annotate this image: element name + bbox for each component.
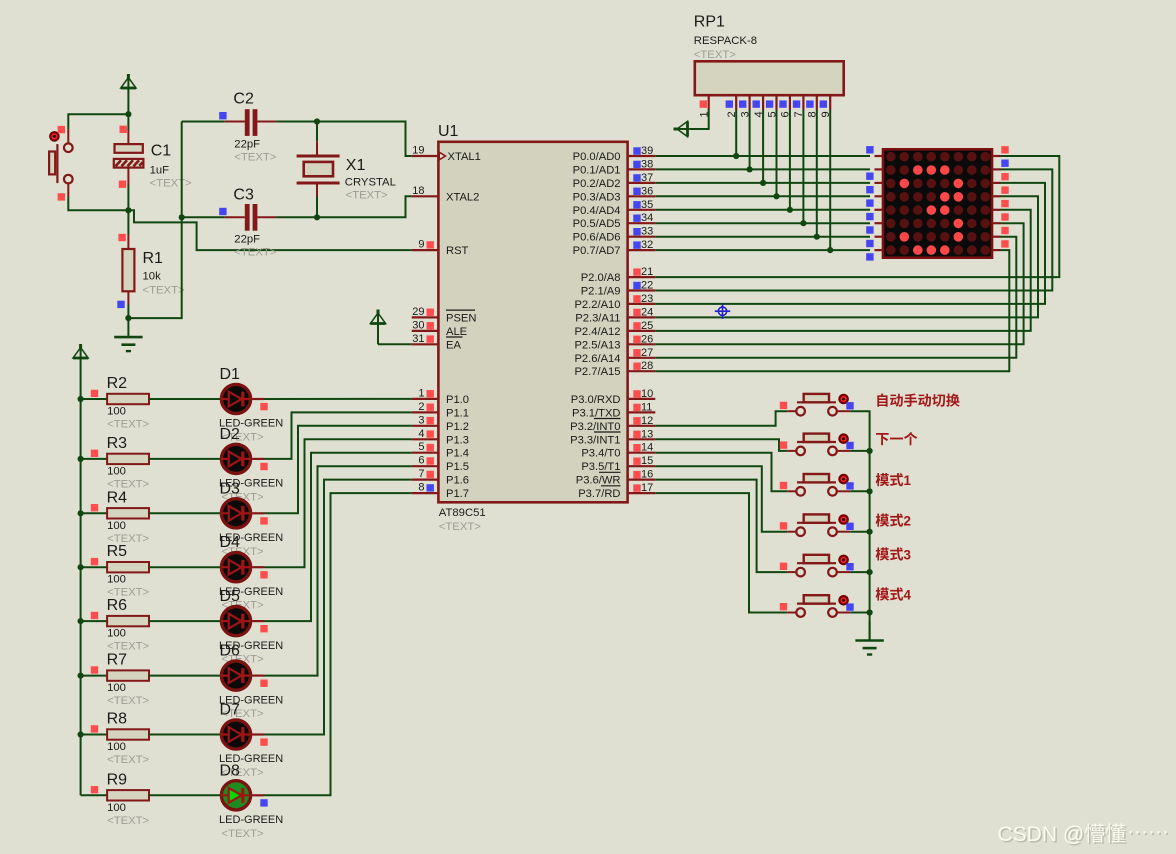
svg-text:P3.1/TXD: P3.1/TXD	[572, 407, 621, 419]
svg-text:AT89C51: AT89C51	[439, 507, 486, 519]
junction XTAL2 node	[314, 214, 320, 220]
svg-text:14: 14	[641, 442, 653, 454]
svg-text:31: 31	[412, 333, 424, 345]
junction LED rail R7	[78, 673, 84, 679]
wire R2 to D1	[149, 398, 221, 400]
wire C3 to XTAL2 node	[276, 216, 317, 218]
wire D2 to P1.1	[264, 412, 412, 459]
svg-text:35: 35	[641, 199, 653, 211]
U1 pin 14 (P3.4/T0)	[581, 442, 655, 460]
matrix left pin 7	[866, 237, 883, 248]
LED D1 (LED-GREEN)	[219, 366, 283, 444]
svg-text:100: 100	[107, 682, 126, 694]
svg-text:2: 2	[904, 514, 911, 529]
svg-text:XTAL2: XTAL2	[446, 191, 479, 203]
wire RP1 pin 9 to P0.7 net	[829, 110, 831, 251]
svg-text:P1.0: P1.0	[446, 394, 469, 406]
svg-text:9: 9	[418, 239, 424, 251]
wire matrix row 8 to P2.7	[655, 250, 1009, 371]
svg-text:P1.2: P1.2	[446, 421, 469, 433]
svg-text:<TEXT>: <TEXT>	[107, 815, 149, 827]
svg-text:26: 26	[641, 333, 653, 345]
svg-text:4: 4	[418, 428, 424, 440]
junction rail button 3	[867, 488, 873, 494]
U1 pin 28 (P2.7/A15)	[574, 360, 655, 378]
matrix right pin 2	[992, 160, 1009, 170]
svg-text:D5: D5	[220, 588, 241, 605]
svg-text:22pF: 22pF	[234, 233, 260, 245]
U1 pin 30 (ALE)	[412, 319, 467, 338]
wire D5 to P1.4	[264, 453, 412, 621]
wire P0.2 to matrix column 3	[655, 182, 870, 184]
svg-text:7: 7	[418, 468, 424, 480]
junction rail button 5	[867, 569, 873, 575]
resistor R1 10k (vertical)	[117, 210, 185, 308]
wire button 5 to rail	[850, 571, 869, 573]
wire D1 to P1.0	[264, 398, 412, 400]
svg-text:36: 36	[641, 185, 653, 197]
label 模式4	[876, 587, 912, 602]
svg-text:RP1: RP1	[694, 14, 725, 31]
wire XTAL1 node to XTAL1 pin	[317, 122, 412, 157]
wire RP1 pin 2 to P0.0 net	[735, 110, 737, 157]
svg-text:D6: D6	[220, 643, 241, 660]
svg-text:R7: R7	[107, 652, 128, 669]
svg-text:22pF: 22pF	[234, 138, 260, 150]
svg-text:XTAL1: XTAL1	[448, 151, 481, 163]
svg-text:P0.1/AD1: P0.1/AD1	[573, 164, 621, 176]
wire button 6 to rail	[850, 612, 869, 614]
power terminal EA pull-up	[370, 310, 385, 345]
wire rail to R9	[81, 794, 108, 796]
junction RP1 pin 9	[827, 247, 833, 253]
push button button 下一个	[780, 433, 854, 455]
wire D5 anode side	[251, 620, 264, 622]
label 模式2	[876, 514, 911, 529]
ground GND1	[114, 318, 142, 351]
svg-text:R4: R4	[107, 489, 128, 506]
svg-text:25: 25	[641, 320, 653, 332]
junction LED rail R6	[78, 618, 84, 624]
label 下一个	[876, 432, 917, 445]
wire button 2 to rail	[850, 450, 869, 452]
U1 pin 25 (P2.4/A12)	[574, 320, 655, 338]
U1 pin 22 (P2.1/A9)	[581, 280, 656, 298]
wire rail to R6	[81, 620, 108, 622]
svg-text:R1: R1	[143, 250, 164, 267]
svg-text:PSEN: PSEN	[446, 312, 476, 324]
power terminal RP1 common	[674, 121, 690, 136]
LED D2 (LED-GREEN)	[219, 426, 283, 504]
wire D1 anode side	[251, 398, 264, 400]
svg-text:100: 100	[107, 574, 126, 586]
wire R9 to D8	[149, 794, 221, 796]
svg-text:13: 13	[641, 428, 653, 440]
wire reset node to RST pin	[128, 210, 411, 250]
svg-text:<TEXT>: <TEXT>	[143, 284, 185, 296]
resistor R2	[107, 375, 150, 431]
svg-text:19: 19	[412, 145, 424, 157]
wire matrix row 2 to P2.1	[655, 169, 1052, 290]
wire button 3 to rail	[850, 490, 869, 492]
svg-text:100: 100	[107, 741, 126, 753]
matrix left pin 8	[866, 250, 883, 261]
svg-text:2: 2	[418, 401, 424, 413]
svg-text:<TEXT>: <TEXT>	[234, 247, 276, 259]
U1 pin 2 (P1.1)	[412, 401, 469, 420]
wire C1 bottom to node	[127, 185, 129, 211]
svg-text:P2.3/A11: P2.3/A11	[575, 312, 620, 324]
resistor R4	[107, 489, 150, 545]
svg-text:P2.2/A10: P2.2/A10	[574, 299, 620, 311]
8x8 LED dot matrix MX1	[883, 149, 992, 257]
U1 pin 35 (P0.4/AD4)	[573, 199, 656, 217]
capacitor C2 22pF	[182, 90, 277, 163]
power terminal LED rail	[73, 344, 88, 795]
wire D4 to P1.3	[264, 439, 412, 567]
wire P3.5 to button 4	[655, 466, 787, 532]
svg-text:1: 1	[418, 387, 424, 399]
wire R6 to D5	[149, 620, 221, 622]
svg-text:D8: D8	[220, 762, 241, 779]
U1 pin 7 (P1.6)	[412, 468, 469, 487]
svg-text:15: 15	[641, 455, 653, 467]
wire rail to R7	[81, 675, 108, 677]
junction RP1 pin 3	[747, 166, 753, 172]
svg-text:16: 16	[641, 469, 653, 481]
wire button 4 to rail	[850, 531, 869, 533]
wire power rail down to C1	[127, 114, 129, 130]
junction LED rail R3	[78, 456, 84, 462]
matrix right pin 5	[992, 200, 1009, 210]
resistor pack RP1 RESPACK-8	[694, 14, 844, 96]
svg-text:100: 100	[107, 802, 126, 814]
U1 pin 38 (P0.1/AD1)	[573, 158, 656, 176]
capacitor C3 22pF	[182, 186, 277, 258]
junction rail button 6	[867, 609, 873, 615]
U1 pin 27 (P2.6/A14)	[574, 347, 655, 365]
svg-text:R8: R8	[107, 711, 128, 728]
matrix right pin 7	[992, 227, 1009, 237]
svg-text:100: 100	[107, 628, 126, 640]
svg-text:P3.0/RXD: P3.0/RXD	[571, 394, 621, 406]
junction rail button 4	[867, 529, 873, 535]
svg-text:17: 17	[641, 482, 653, 494]
svg-text:<TEXT>: <TEXT>	[107, 419, 149, 431]
svg-text:P3.2/INT0: P3.2/INT0	[570, 421, 620, 433]
svg-text:P0.5/AD5: P0.5/AD5	[573, 218, 621, 230]
wire matrix row 3 to P2.2	[655, 183, 1045, 304]
wire D4 anode side	[251, 566, 264, 568]
svg-text:R3: R3	[107, 435, 128, 452]
svg-text:29: 29	[412, 306, 424, 318]
svg-text:R5: R5	[107, 543, 128, 560]
svg-text:R2: R2	[107, 375, 128, 392]
wire D6 to P1.5	[264, 466, 412, 675]
svg-text:C2: C2	[233, 90, 254, 107]
svg-text:P3.6/WR: P3.6/WR	[576, 475, 621, 487]
LED D8 (LED-GREEN)	[219, 762, 283, 840]
matrix left pin 4	[866, 196, 883, 206]
U1 pin 31 (EA)	[412, 333, 463, 352]
wire R4 to D3	[149, 512, 221, 514]
U1 pin 39 (P0.0/AD0)	[573, 145, 656, 163]
resistor R6	[107, 597, 150, 653]
svg-text:34: 34	[641, 212, 653, 224]
junction RP1 pin 5	[773, 193, 779, 199]
svg-text:D2: D2	[220, 426, 241, 443]
junction LED rail R4	[78, 510, 84, 516]
wire P3.4 to button 3	[655, 453, 787, 492]
svg-text:D7: D7	[220, 702, 241, 719]
svg-text:U1: U1	[438, 123, 459, 140]
svg-text:100: 100	[107, 465, 126, 477]
ground GND2	[855, 622, 883, 655]
svg-text:P0.0/AD0: P0.0/AD0	[573, 151, 621, 163]
U1 pin 11 (P3.1/TXD)	[572, 401, 655, 419]
wire D8 to P1.7	[264, 493, 412, 795]
junction RP1 pin 4	[760, 180, 766, 186]
svg-text:P1.4: P1.4	[446, 448, 469, 460]
svg-text:CRYSTAL: CRYSTAL	[345, 177, 396, 189]
svg-text:D4: D4	[220, 534, 241, 551]
U1 pin 10 (P3.0/RXD)	[571, 388, 656, 406]
svg-text:10k: 10k	[143, 271, 162, 283]
LED D6 (LED-GREEN)	[219, 643, 283, 721]
svg-text:<TEXT>: <TEXT>	[694, 49, 736, 61]
svg-text:30: 30	[412, 319, 424, 331]
LED D5 (LED-GREEN)	[219, 588, 283, 666]
U1 pin 18 (XTAL2)	[412, 185, 480, 204]
matrix left pin 1	[866, 146, 883, 156]
svg-text:P2.1/A9: P2.1/A9	[581, 286, 621, 298]
svg-text:P2.5/A13: P2.5/A13	[574, 339, 620, 351]
svg-text:X1: X1	[346, 157, 366, 174]
svg-text:R6: R6	[107, 597, 128, 614]
junction LED rail R8	[78, 731, 84, 737]
U1 pin 32 (P0.7/AD7)	[573, 239, 656, 257]
wire R8 to D7	[149, 734, 221, 736]
svg-text:22: 22	[641, 280, 653, 292]
resistor R8	[107, 711, 150, 767]
matrix left pin 3	[866, 183, 883, 194]
CSDN watermark	[998, 820, 1171, 848]
wire RP1 pin 8 to P0.6 net	[816, 110, 818, 237]
wire R3 to D2	[149, 458, 221, 460]
wire button bottom to node	[68, 197, 128, 211]
U1 pin 6 (P1.5)	[412, 455, 469, 474]
svg-text:P1.6: P1.6	[446, 475, 469, 487]
U1 pin 29 (PSEN)	[412, 306, 477, 325]
wire R5 to D4	[149, 566, 221, 568]
svg-text:P0.6/AD6: P0.6/AD6	[573, 232, 621, 244]
svg-text:27: 27	[641, 347, 653, 359]
U1 pin 4 (P1.3)	[412, 428, 469, 447]
wire RP1 pin 3 to P0.1 net	[749, 110, 751, 170]
svg-text:24: 24	[641, 306, 653, 318]
resistor R3	[107, 435, 150, 491]
svg-text:P3.4/T0: P3.4/T0	[581, 448, 620, 460]
svg-text:4: 4	[904, 587, 912, 602]
wire button common rail	[850, 411, 869, 640]
junction RP1 pin 6	[787, 207, 793, 213]
wire EA arrow to EA pin	[378, 343, 412, 345]
svg-text:1: 1	[904, 473, 912, 488]
matrix right pin 1	[992, 146, 1009, 156]
U1 pin 9 (RST)	[412, 239, 469, 258]
wire D7 anode side	[251, 733, 264, 735]
RP1 pin 8	[806, 95, 818, 117]
wire ground node to C2/C3 left rail	[128, 122, 181, 319]
svg-text:18: 18	[412, 185, 424, 197]
wire D3 to P1.2	[264, 426, 412, 514]
RP1 pin 5	[766, 95, 778, 117]
junction RP1 pin 2	[733, 153, 739, 159]
LED D7 (LED-GREEN)	[219, 702, 283, 780]
push button SW1 (vertical, reset)	[49, 126, 73, 201]
matrix right pin 8	[992, 240, 1009, 250]
svg-text:D3: D3	[220, 480, 241, 497]
svg-text:RESPACK-8: RESPACK-8	[694, 35, 757, 47]
svg-text:38: 38	[641, 158, 653, 170]
U1 pin 37 (P0.2/AD2)	[573, 172, 656, 190]
U1 pin 5 (P1.4)	[412, 441, 469, 460]
svg-text:P2.0/A8: P2.0/A8	[581, 272, 621, 284]
svg-text:23: 23	[641, 293, 653, 305]
svg-text:32: 32	[641, 239, 653, 251]
wire P0.6 to matrix column 7	[655, 236, 870, 238]
resistor R5	[107, 543, 150, 599]
push button button 模式3	[780, 555, 854, 577]
wire D6 anode side	[251, 674, 264, 676]
svg-text:3: 3	[418, 414, 424, 426]
svg-text:5: 5	[418, 441, 424, 453]
RP1 pin 6	[779, 95, 791, 117]
svg-text:P0.4/AD4: P0.4/AD4	[573, 205, 621, 217]
U1 pin 36 (P0.3/AD3)	[573, 185, 656, 203]
RP1 pin 1	[699, 95, 711, 117]
wire P0.1 to matrix column 2	[655, 168, 870, 170]
svg-text:<TEXT>: <TEXT>	[234, 152, 276, 164]
power terminal VCC (reset net)	[121, 74, 136, 114]
junction RP1 pin 8	[814, 234, 820, 240]
matrix right pin 4	[992, 186, 1009, 196]
U1 pin 15 (P3.5/T1)	[581, 455, 655, 473]
svg-text:<TEXT>: <TEXT>	[346, 190, 388, 202]
svg-text:P1.1: P1.1	[446, 407, 469, 419]
svg-text:P2.6/A14: P2.6/A14	[574, 353, 620, 365]
wire P0.4 to matrix column 5	[655, 209, 870, 211]
U1 pin 12 (P3.2/INT0)	[570, 415, 655, 433]
crystal X1	[297, 122, 396, 218]
U1 pin 19 (XTAL1)	[412, 145, 481, 164]
U1 pin 34 (P0.5/AD5)	[573, 212, 656, 230]
resistor R7	[107, 652, 150, 708]
RP1 pin 2	[726, 95, 738, 117]
junction reset node	[125, 207, 131, 213]
svg-text:10: 10	[641, 388, 653, 400]
capacitor C1 1uF (electrolytic)	[114, 126, 192, 190]
wire P3.6 to button 5	[655, 480, 787, 572]
svg-text:12: 12	[641, 415, 653, 427]
svg-text:D1: D1	[220, 366, 241, 383]
svg-text:LED-GREEN: LED-GREEN	[219, 814, 283, 826]
junction XTAL1 node	[314, 118, 320, 124]
U1 pin 17 (P3.7/RD)	[578, 482, 655, 500]
svg-text:33: 33	[641, 226, 653, 238]
svg-text:<TEXT>: <TEXT>	[107, 754, 149, 766]
U1 pin 13 (P3.3/INT1)	[570, 428, 655, 446]
svg-text:<TEXT>: <TEXT>	[439, 521, 481, 533]
matrix left pin 6	[866, 223, 883, 234]
wire rail to R2	[81, 398, 108, 400]
junction RP1 pin 7	[800, 220, 806, 226]
U1 pin 23 (P2.2/A10)	[574, 293, 655, 311]
svg-text:21: 21	[641, 266, 653, 278]
label 模式1	[876, 473, 912, 488]
wire RP1 pin 7 to P0.5 net	[802, 110, 804, 224]
wire P0.0 to matrix column 1	[655, 155, 870, 157]
wire matrix row 1 to P2.0	[655, 156, 1059, 277]
U1 pin 3 (P1.2)	[412, 414, 469, 433]
U1 pin 8 (P1.7)	[412, 482, 469, 501]
svg-text:<TEXT>: <TEXT>	[222, 828, 264, 840]
junction C3 left tap	[179, 214, 185, 220]
wire R7 to D6	[149, 675, 221, 677]
svg-text:37: 37	[641, 172, 653, 184]
wire RP1 pin 5 to P0.3 net	[776, 110, 778, 197]
svg-text:6: 6	[418, 455, 424, 467]
svg-text:<TEXT>: <TEXT>	[150, 177, 192, 189]
svg-text:P1.5: P1.5	[446, 461, 469, 473]
wire matrix row 4 to P2.3	[655, 196, 1038, 317]
svg-text:P2.7/A15: P2.7/A15	[574, 366, 620, 378]
microcontroller U1 AT89C51	[438, 123, 628, 533]
LED D4 (LED-GREEN)	[219, 534, 283, 612]
wire rail to R5	[81, 566, 108, 568]
U1 pin 26 (P2.5/A13)	[574, 333, 655, 351]
U1 pin 33 (P0.6/AD6)	[573, 226, 656, 244]
RP1 pin 9	[820, 95, 832, 117]
wire rail to R3	[81, 458, 108, 460]
svg-text:CSDN @: CSDN @	[998, 823, 1085, 846]
U1 pin 21 (P2.0/A8)	[581, 266, 656, 284]
wire RP1 pin 6 to P0.4 net	[789, 110, 791, 210]
svg-text:P1.7: P1.7	[446, 488, 469, 500]
label 模式3	[876, 547, 911, 562]
wire D2 anode side	[251, 458, 264, 460]
junction at power/C1/button node	[125, 111, 131, 117]
svg-text:P1.3: P1.3	[446, 434, 469, 446]
svg-text:P2.4/A12: P2.4/A12	[574, 326, 620, 338]
wire D8 anode side	[251, 794, 264, 796]
matrix right pin 3	[992, 173, 1009, 183]
RP1 pin 4	[753, 95, 765, 117]
push button button 模式2	[780, 514, 854, 536]
svg-text:P0.7/AD7: P0.7/AD7	[573, 245, 621, 257]
wire RP1 pin1 to power arrow	[689, 110, 708, 130]
RP1 pin 3	[739, 95, 751, 117]
wire matrix row 7 to P2.6	[655, 237, 1016, 358]
wire D3 anode side	[251, 512, 264, 514]
wire R1 bottom to ground node	[127, 305, 129, 319]
wire D7 to P1.6	[264, 480, 412, 735]
junction LED rail R2	[78, 396, 84, 402]
svg-text:8: 8	[418, 482, 424, 494]
wire P3.7 to button 6	[655, 493, 787, 612]
wire P0.7 to matrix column 8	[655, 249, 870, 251]
wire P3.3 to button 2	[655, 439, 787, 451]
